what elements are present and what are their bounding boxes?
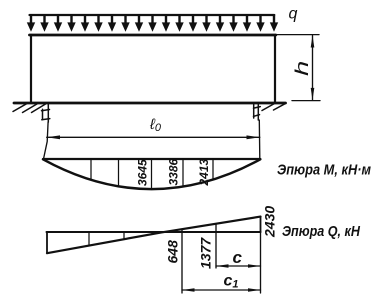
- svg-text:2413: 2413: [197, 158, 211, 186]
- right support mark: [254, 105, 261, 121]
- distributed load q : arrows: [27, 16, 278, 32]
- c dimension line: [216, 264, 261, 268]
- M diagram: top (zero) line: [43, 158, 260, 160]
- M diagram hatch ordinates: [91, 159, 213, 188]
- svg-text:3386: 3386: [167, 158, 181, 185]
- svg-text:648: 648: [165, 240, 181, 264]
- svg-text:1377: 1377: [198, 237, 214, 269]
- l0 right extension line: [258, 120, 261, 159]
- svg-text:c1: c1: [224, 273, 239, 291]
- beam left edge: [30, 35, 32, 103]
- h dimension line: [311, 35, 315, 100]
- Q diagram: zero axis: [47, 231, 261, 233]
- M diagram: parabola: [43, 159, 260, 189]
- right extension below Q: [260, 232, 262, 293]
- c1 dimension line: [182, 288, 261, 292]
- distributed load q : top line: [30, 14, 275, 16]
- l0 left extension line: [44, 122, 49, 159]
- svg-text:2430: 2430: [262, 206, 278, 238]
- svg-text:q: q: [289, 6, 298, 23]
- h dimension bottom extension: [292, 100, 320, 102]
- beam top edge: [30, 34, 276, 37]
- ordinate line 1377: [215, 224, 217, 268]
- beam bottom edge / support surface line: [14, 102, 286, 105]
- l0 dimension line: [47, 135, 260, 139]
- ordinate line 648: [181, 229, 183, 293]
- Q diagram: sloped line: [47, 217, 261, 254]
- svg-text:h: h: [292, 61, 312, 76]
- Q hatch: [89, 232, 152, 245]
- left wall hatching: [13, 103, 46, 112]
- svg-text:Эпюра М, кН·м: Эпюра М, кН·м: [277, 162, 371, 179]
- svg-text:Эпюра Q, кН: Эпюра Q, кН: [282, 223, 361, 240]
- svg-text:c: c: [233, 248, 243, 267]
- left support mark: [42, 105, 50, 123]
- beam right edge: [274, 35, 276, 103]
- svg-text:3645: 3645: [136, 159, 150, 186]
- Q diagram: right edge: [260, 217, 262, 233]
- svg-text:ℓ0: ℓ0: [149, 116, 162, 134]
- Q diagram: left edge: [46, 232, 48, 253]
- right wall hatching: [262, 103, 286, 110]
- h dimension top extension: [276, 34, 319, 36]
